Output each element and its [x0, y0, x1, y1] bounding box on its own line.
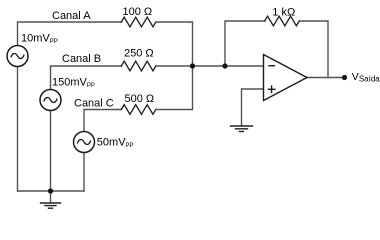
svg-text:Canal B: Canal B	[62, 53, 101, 65]
svg-text:100 Ω: 100 Ω	[123, 6, 153, 18]
svg-text:500 Ω: 500 Ω	[125, 93, 155, 105]
svg-text:1 kΩ: 1 kΩ	[272, 7, 295, 19]
svg-text:Canal C: Canal C	[74, 97, 114, 109]
svg-text:250 Ω: 250 Ω	[124, 48, 154, 60]
svg-text:Canal A: Canal A	[52, 10, 91, 22]
